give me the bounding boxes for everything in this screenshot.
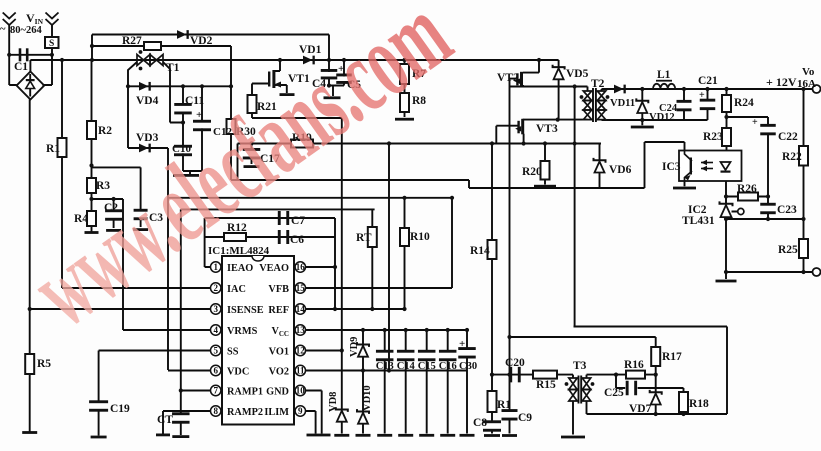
svg-text:R16: R16 bbox=[624, 359, 644, 371]
svg-text:R27: R27 bbox=[122, 35, 142, 47]
svg-text:~: ~ bbox=[0, 24, 6, 35]
svg-text:11: 11 bbox=[296, 366, 305, 376]
svg-text:VEAO: VEAO bbox=[259, 263, 289, 274]
svg-text:C6: C6 bbox=[290, 234, 304, 246]
svg-text:T2: T2 bbox=[591, 78, 605, 90]
svg-text:12: 12 bbox=[296, 346, 306, 356]
svg-text:14: 14 bbox=[296, 304, 306, 314]
svg-text:+ 12V: + 12V bbox=[766, 75, 797, 89]
svg-text:VD2: VD2 bbox=[190, 35, 213, 47]
svg-text:T1: T1 bbox=[166, 62, 180, 74]
svg-text:C16: C16 bbox=[439, 361, 457, 372]
svg-text:VO1: VO1 bbox=[269, 347, 289, 358]
svg-text:VT2: VT2 bbox=[497, 72, 519, 84]
svg-text:8: 8 bbox=[213, 406, 218, 416]
svg-text:R1: R1 bbox=[46, 143, 60, 155]
svg-text:T3: T3 bbox=[573, 360, 587, 372]
svg-text:+: + bbox=[459, 338, 465, 350]
svg-text:R17: R17 bbox=[662, 351, 682, 363]
svg-text:C23: C23 bbox=[777, 204, 797, 216]
svg-text:5: 5 bbox=[213, 346, 218, 356]
svg-text:VD11: VD11 bbox=[610, 98, 635, 109]
svg-text:REF: REF bbox=[268, 305, 289, 316]
svg-text:R15: R15 bbox=[536, 379, 556, 391]
svg-text:VO2: VO2 bbox=[269, 367, 289, 378]
svg-text:RT: RT bbox=[356, 232, 372, 244]
svg-text:R22: R22 bbox=[782, 151, 802, 163]
svg-text:R5: R5 bbox=[37, 358, 51, 370]
svg-text:9: 9 bbox=[298, 406, 303, 416]
svg-text:VD6: VD6 bbox=[609, 164, 632, 176]
svg-text:C30: C30 bbox=[459, 361, 477, 372]
svg-text:C1: C1 bbox=[14, 61, 28, 73]
svg-text:GND: GND bbox=[266, 387, 289, 398]
svg-text:C11: C11 bbox=[185, 95, 204, 107]
svg-text:VD9: VD9 bbox=[349, 337, 360, 357]
svg-text:VFB: VFB bbox=[268, 284, 289, 295]
svg-text:R2: R2 bbox=[98, 125, 112, 137]
svg-text:C21: C21 bbox=[698, 75, 718, 87]
svg-text:10: 10 bbox=[296, 386, 306, 396]
svg-text:+: + bbox=[752, 117, 758, 128]
svg-text:VD8: VD8 bbox=[328, 392, 339, 412]
svg-text:C8: C8 bbox=[473, 417, 487, 429]
svg-text:1: 1 bbox=[213, 262, 218, 272]
svg-text:RAMP1: RAMP1 bbox=[227, 387, 263, 398]
svg-text:VD5: VD5 bbox=[566, 68, 589, 80]
svg-text:VD10: VD10 bbox=[362, 385, 373, 411]
svg-text:VDC: VDC bbox=[227, 367, 249, 378]
svg-text:R24: R24 bbox=[734, 97, 754, 109]
svg-text:C7: C7 bbox=[291, 215, 305, 227]
svg-text:C20: C20 bbox=[505, 357, 525, 369]
svg-text:L1: L1 bbox=[657, 69, 671, 81]
svg-text:VD4: VD4 bbox=[136, 95, 159, 107]
svg-text:IEAO: IEAO bbox=[227, 263, 253, 274]
svg-text:2: 2 bbox=[213, 283, 218, 293]
svg-text:C22: C22 bbox=[778, 131, 798, 143]
svg-text:ILIM: ILIM bbox=[264, 407, 289, 418]
svg-text:15: 15 bbox=[296, 283, 306, 293]
svg-text:4: 4 bbox=[213, 325, 218, 335]
svg-text:R25: R25 bbox=[778, 244, 798, 256]
svg-text:S: S bbox=[49, 39, 54, 49]
svg-text:VT3: VT3 bbox=[536, 123, 558, 135]
svg-text:R23: R23 bbox=[703, 131, 723, 143]
svg-text:C14: C14 bbox=[397, 361, 416, 372]
svg-text:VRMS: VRMS bbox=[227, 326, 258, 337]
svg-text:SS: SS bbox=[227, 347, 239, 358]
svg-text:C13: C13 bbox=[376, 361, 394, 372]
svg-text:R18: R18 bbox=[689, 398, 709, 410]
svg-text:R10: R10 bbox=[410, 231, 430, 243]
svg-text:C19: C19 bbox=[110, 403, 130, 415]
svg-text:R20: R20 bbox=[522, 166, 542, 178]
svg-text:80~264: 80~264 bbox=[10, 25, 42, 36]
svg-text:VD3: VD3 bbox=[136, 132, 159, 144]
svg-text:TL431: TL431 bbox=[682, 215, 715, 227]
svg-text:+: + bbox=[699, 90, 705, 101]
svg-text:IC3: IC3 bbox=[662, 161, 681, 173]
svg-text:C24: C24 bbox=[659, 103, 678, 114]
svg-text:16: 16 bbox=[296, 262, 306, 272]
svg-text:6: 6 bbox=[213, 366, 218, 376]
svg-text:13: 13 bbox=[296, 325, 306, 335]
svg-text:7: 7 bbox=[213, 386, 218, 396]
svg-text:Vo: Vo bbox=[802, 66, 815, 78]
svg-text:C9: C9 bbox=[518, 412, 532, 424]
svg-text:16A: 16A bbox=[797, 78, 816, 90]
svg-text:C15: C15 bbox=[418, 361, 436, 372]
svg-text:CT: CT bbox=[157, 414, 173, 426]
svg-text:C25: C25 bbox=[604, 387, 624, 399]
svg-text:3: 3 bbox=[213, 304, 218, 314]
svg-text:IAC: IAC bbox=[227, 284, 246, 295]
svg-text:R1: R1 bbox=[497, 399, 511, 411]
svg-text:R14: R14 bbox=[470, 245, 490, 257]
svg-text:RAMP2: RAMP2 bbox=[227, 407, 263, 418]
svg-text:VD7: VD7 bbox=[629, 403, 652, 415]
svg-text:ISENSE: ISENSE bbox=[227, 305, 264, 316]
svg-text:R26: R26 bbox=[737, 183, 757, 195]
